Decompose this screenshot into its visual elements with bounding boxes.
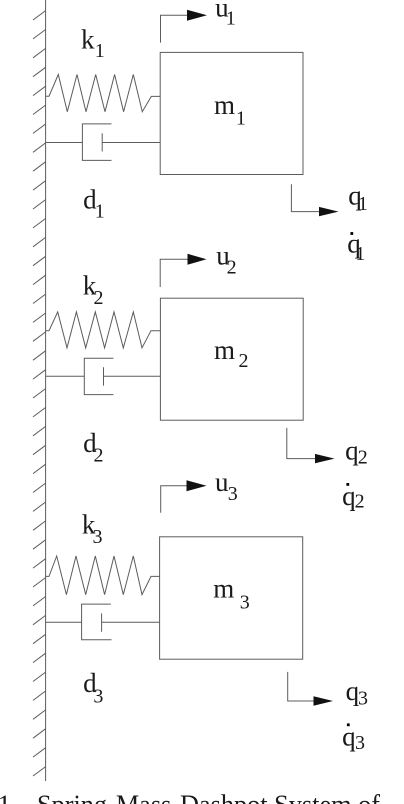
q3 arrow elbow [288, 672, 314, 701]
svg-text:1: 1 [226, 8, 236, 30]
svg-text:3: 3 [93, 685, 103, 707]
u3 arrowhead [187, 480, 207, 491]
spring k2 [46, 312, 161, 348]
q2 arrow elbow [287, 428, 316, 459]
damper d2 rod right [104, 375, 161, 377]
spring k3 [46, 556, 160, 595]
svg-text:2: 2 [239, 350, 249, 372]
mass box m1 [160, 52, 303, 174]
mass box m2 [160, 298, 303, 420]
svg-text:3: 3 [358, 687, 368, 709]
svg-text:3: 3 [228, 483, 238, 505]
damper d2 piston [103, 367, 105, 385]
damper d1 rod left [46, 142, 83, 144]
svg-text:2: 2 [227, 257, 237, 279]
svg-text:2: 2 [358, 446, 368, 468]
damper d1 rod right [102, 142, 160, 144]
svg-text:Spring-Mass-Dashpot System of: Spring-Mass-Dashpot System of [37, 790, 380, 804]
svg-text:2: 2 [355, 491, 365, 513]
svg-text:1: 1 [95, 40, 105, 62]
svg-text:m: m [214, 90, 235, 120]
svg-text:2: 2 [94, 445, 104, 467]
svg-text:3: 3 [93, 526, 103, 548]
mass box m3 [160, 537, 303, 659]
damper d1 cylinder [82, 124, 111, 160]
wall [45, 0, 47, 781]
q3 arrowhead [314, 696, 334, 705]
q1 arrow elbow [291, 184, 319, 211]
damper d2 rod left [46, 375, 85, 377]
u1 arrowhead [187, 10, 207, 21]
damper d1 piston [101, 133, 103, 151]
svg-text:3: 3 [355, 732, 365, 754]
u1 arrow elbow [161, 15, 189, 42]
damper d3 rod right [102, 621, 160, 623]
svg-text:1.: 1. [0, 790, 18, 804]
q2dot dot [346, 483, 349, 486]
u2 arrowhead [188, 254, 207, 265]
svg-text:1: 1 [358, 193, 368, 215]
damper d3 rod left [46, 621, 82, 623]
damper d3 piston [101, 613, 103, 631]
damper d3 cylinder [82, 604, 112, 640]
u3 arrow elbow [161, 486, 188, 513]
u2 arrow elbow [160, 259, 188, 287]
svg-text:1: 1 [95, 200, 105, 222]
q3dot dot [347, 723, 350, 726]
svg-text:2: 2 [94, 287, 104, 309]
svg-text:k: k [81, 24, 95, 54]
svg-text:1: 1 [355, 243, 365, 265]
svg-text:3: 3 [240, 592, 250, 614]
q2 arrowhead [315, 454, 335, 463]
damper d2 cylinder [84, 358, 113, 394]
q1 arrowhead [319, 207, 339, 216]
spring k1 [46, 75, 161, 112]
svg-text:m: m [213, 574, 234, 604]
svg-text:1: 1 [236, 107, 246, 129]
wall hatching [33, 11, 46, 776]
svg-text:m: m [214, 335, 235, 365]
q1dot dot [350, 232, 353, 235]
